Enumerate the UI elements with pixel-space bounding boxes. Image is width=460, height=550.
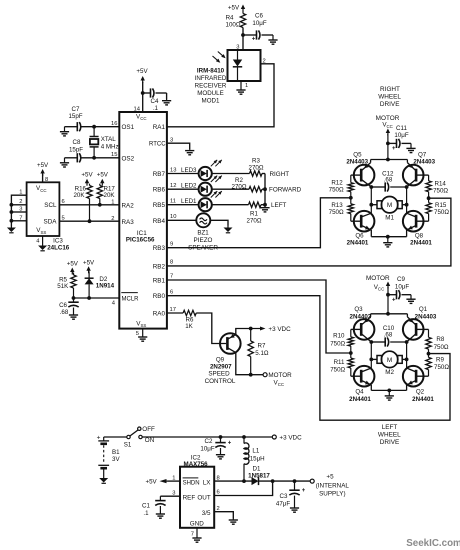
svg-text:+: +	[252, 37, 256, 43]
svg-text:3: 3	[19, 207, 22, 213]
transistor Q9 2N2907	[220, 333, 241, 354]
svg-text:Q8: Q8	[415, 233, 424, 240]
svg-text:+5V: +5V	[146, 479, 158, 486]
svg-text:+5V: +5V	[83, 259, 95, 266]
wire OUT riser	[214, 481, 272, 495]
eeprom IC3 box	[27, 182, 60, 236]
svg-text:LED1: LED1	[181, 198, 197, 205]
transistor Q5 2N4403	[354, 160, 375, 188]
svg-text:2: 2	[217, 506, 220, 512]
svg-text:2N4401: 2N4401	[412, 396, 434, 403]
wire SCL to RA2	[59, 204, 119, 206]
text MOTOR VCC (right)	[376, 115, 400, 129]
svg-text:OUT: OUT	[197, 494, 210, 501]
text Q8	[410, 233, 432, 247]
crystal XTAL 4MHz	[90, 127, 119, 158]
ground (IC2 GND)	[192, 537, 201, 543]
svg-text:Q4: Q4	[355, 389, 364, 396]
power +5V (R16)	[81, 172, 93, 186]
resistor R4	[226, 14, 246, 29]
svg-text:LED3: LED3	[181, 167, 197, 174]
label IC3 pin 4 and ground	[36, 236, 42, 245]
node OS2/XTAL	[92, 156, 96, 160]
svg-text:RIGHT: RIGHT	[270, 171, 290, 178]
power arrow motor vcc left	[386, 282, 390, 314]
ground (IC1 VSS)	[138, 336, 147, 342]
wire Q1 base rail	[416, 329, 428, 337]
capacitor C11 10uF	[388, 125, 411, 152]
svg-text:Q3: Q3	[354, 306, 363, 313]
svg-text:3/5: 3/5	[202, 510, 211, 517]
node R17/SCL	[98, 203, 102, 207]
svg-text:3: 3	[170, 138, 173, 144]
svg-text:C6: C6	[59, 302, 67, 309]
svg-text:RB5: RB5	[153, 202, 166, 209]
resistor R5 51K	[57, 273, 76, 299]
ground (C8)	[60, 158, 69, 167]
svg-text:R12: R12	[331, 180, 343, 187]
text BZ1 PIEZO SPEAKER	[188, 230, 218, 252]
svg-text:1: 1	[245, 83, 248, 89]
svg-text:RIGHT: RIGHT	[380, 86, 400, 93]
ground (RTCC)	[185, 150, 194, 155]
resistor R9 750	[426, 357, 450, 377]
svg-text:270Ω: 270Ω	[249, 165, 264, 172]
wire Q8 base	[416, 220, 429, 222]
node FORWARD junction	[263, 187, 267, 191]
wire Q9 emitter to +3VDC rail	[236, 329, 251, 335]
svg-text:M2: M2	[385, 369, 394, 376]
svg-text:.1: .1	[143, 510, 149, 517]
node C3 junction	[293, 479, 297, 483]
svg-text:10: 10	[170, 214, 176, 220]
resistor R17 20K	[97, 184, 115, 205]
node right bridge left input	[349, 196, 353, 200]
svg-text:2N4403: 2N4403	[346, 159, 368, 166]
wire left inner vertical (right bridge)	[370, 187, 372, 213]
svg-text:7: 7	[191, 532, 194, 538]
node M2 left	[369, 358, 373, 362]
node Q9 collector/R7	[249, 373, 253, 377]
svg-text:16: 16	[111, 121, 117, 127]
svg-text:.68: .68	[384, 176, 393, 183]
svg-text:750Ω: 750Ω	[434, 209, 449, 216]
terminal MOTOR VCC	[263, 372, 292, 387]
motor M1	[371, 197, 406, 222]
svg-text:Q7: Q7	[418, 152, 427, 159]
svg-text:C3: C3	[280, 493, 288, 500]
wire R6 to Q9 base	[196, 313, 226, 344]
wire Q7 base rail	[416, 175, 429, 181]
svg-text:+3 VDC: +3 VDC	[268, 326, 291, 333]
node left bridge left input	[349, 351, 353, 355]
svg-text:5.1Ω: 5.1Ω	[255, 350, 269, 357]
svg-text:R10: R10	[333, 333, 345, 340]
wire LED resistor common	[264, 174, 266, 205]
svg-text:2N4403: 2N4403	[413, 159, 435, 166]
svg-text:BZ1: BZ1	[197, 230, 209, 237]
svg-text:270Ω: 270Ω	[232, 184, 247, 191]
power arrow motor vcc right	[386, 129, 390, 160]
photodiode inside MOD1	[233, 50, 242, 81]
text IC3 inside labels	[36, 185, 57, 235]
svg-text:R7: R7	[258, 343, 266, 350]
svg-text:Q2: Q2	[416, 389, 425, 396]
svg-text:2N4401: 2N4401	[347, 240, 369, 247]
svg-text:750Ω: 750Ω	[330, 367, 345, 374]
capacitor C7	[65, 106, 83, 131]
svg-text:15pF: 15pF	[68, 113, 82, 120]
node M2 right	[405, 358, 409, 362]
wire RB2 to right bridge right input	[167, 198, 451, 266]
svg-text:M: M	[387, 202, 392, 209]
wire right bridge bottom rail	[371, 236, 406, 238]
wire RB1 to left bridge left input	[167, 280, 351, 353]
node VCC/C4 junction	[141, 91, 145, 95]
op IC1 PIC16C56 box	[119, 112, 167, 329]
wire RB3 to right bridge left input	[167, 198, 351, 248]
wire RB7 row	[167, 173, 265, 175]
svg-text:OS2: OS2	[122, 155, 135, 162]
svg-text:R13: R13	[331, 202, 343, 209]
svg-text:INFRARED: INFRARED	[195, 75, 227, 82]
svg-text:2: 2	[19, 199, 22, 205]
wire +5V to IC3 pin 8	[43, 174, 49, 183]
svg-text:OS1: OS1	[122, 124, 135, 131]
svg-text:R4: R4	[226, 15, 234, 22]
svg-text:1N5817: 1N5817	[248, 472, 270, 479]
svg-text:6: 6	[62, 199, 65, 205]
svg-text:15: 15	[111, 152, 117, 158]
svg-text:3: 3	[236, 45, 239, 51]
capacitor C6	[243, 13, 273, 43]
node C12 left	[369, 185, 373, 189]
node MCLR/R5	[72, 296, 76, 300]
label MOD1 pin 1	[241, 81, 248, 89]
node C11 junction	[386, 142, 390, 146]
capacitor C2 10uF	[200, 437, 231, 454]
text IC1 inside labels	[121, 114, 166, 328]
svg-text:RA0: RA0	[153, 310, 166, 317]
svg-text:51K: 51K	[57, 283, 69, 290]
svg-text:7: 7	[19, 215, 22, 221]
svg-text:1: 1	[19, 190, 22, 196]
text IC3 24LC16	[47, 238, 70, 252]
node top rail vcc left	[386, 312, 390, 316]
text Q9 labels	[205, 357, 236, 385]
node C2 junction	[219, 435, 223, 439]
svg-text:DRIVE: DRIVE	[380, 439, 400, 446]
transistor Q7 2N4403	[403, 160, 424, 188]
ground (C5)	[69, 314, 78, 320]
svg-text:RB4: RB4	[153, 218, 166, 225]
svg-text:+5V: +5V	[67, 261, 79, 268]
wire left bridge top rail	[371, 313, 408, 315]
svg-text:1K: 1K	[185, 323, 193, 330]
svg-text:RA1: RA1	[153, 124, 166, 131]
diode D1 1N5817	[248, 466, 270, 486]
wire D1 to +5 terminal	[259, 480, 311, 482]
svg-text:8: 8	[170, 260, 173, 266]
svg-text:REF: REF	[183, 494, 196, 501]
svg-text:10μF: 10μF	[252, 20, 266, 27]
svg-text:C1: C1	[142, 503, 150, 510]
wire RB5 row	[167, 204, 265, 206]
battery B1 3V	[97, 435, 121, 478]
svg-text:IC3: IC3	[53, 238, 63, 245]
capacitor C10 .68	[371, 325, 406, 347]
text Q2	[412, 389, 434, 403]
node right bridge right input	[427, 196, 431, 200]
node bottom rail ground left	[387, 389, 391, 393]
svg-text:C4: C4	[151, 98, 159, 105]
ground (right bridge)	[383, 237, 392, 247]
svg-text:8: 8	[217, 475, 220, 481]
wire RB6 row	[167, 188, 265, 190]
wire Q3 base rail	[351, 329, 361, 337]
svg-text:WHEEL: WHEEL	[378, 94, 401, 101]
wire left inner vertical (left bridge)	[370, 342, 372, 368]
svg-text:17: 17	[170, 307, 176, 313]
ground (IC3 bus)	[7, 227, 16, 233]
node R16/SDA	[88, 219, 92, 223]
svg-text:10μF: 10μF	[200, 445, 214, 452]
resistor R14 750	[426, 180, 449, 202]
wire 3/5 to ground	[214, 512, 233, 519]
text IRM-8410 module labels	[195, 68, 227, 105]
svg-text:MOTOR: MOTOR	[376, 115, 400, 122]
terminal +5 internal supply	[310, 473, 349, 497]
svg-text:SUPPLY): SUPPLY)	[319, 491, 345, 498]
svg-text:R3: R3	[252, 157, 260, 164]
text LEFT WHEEL DRIVE	[378, 424, 401, 446]
svg-text:+: +	[302, 488, 306, 494]
text IC2 MAX756	[184, 455, 209, 469]
capacitor C4	[143, 88, 167, 112]
text Q6	[347, 233, 369, 247]
svg-text:2N2907: 2N2907	[210, 363, 232, 370]
svg-text:PIC16C56: PIC16C56	[126, 237, 155, 244]
svg-text:+5V: +5V	[37, 162, 49, 169]
capacitor C12 .68	[371, 170, 406, 191]
svg-text:C8: C8	[73, 139, 81, 146]
svg-text:L1: L1	[252, 447, 259, 454]
text Q4	[349, 389, 371, 403]
svg-text:.68: .68	[384, 331, 393, 338]
piezo speaker BZ1	[196, 213, 210, 227]
wire left bridge bottom rail	[371, 389, 406, 391]
wire RTCC to ground	[167, 143, 190, 150]
ground (battery)	[99, 478, 108, 484]
svg-text:2N4401: 2N4401	[349, 396, 371, 403]
svg-text:+: +	[228, 441, 232, 447]
svg-text:Q6: Q6	[355, 233, 364, 240]
power +5V (R5)	[67, 261, 79, 275]
ground (C3)	[290, 507, 299, 513]
svg-text:20K: 20K	[73, 192, 85, 199]
svg-text:+5V: +5V	[136, 68, 148, 75]
resistor R7 5.1	[248, 329, 269, 375]
inductor L1 15uH	[244, 437, 265, 481]
transistor Q1 2N4403	[403, 314, 424, 342]
LED LED3	[199, 160, 222, 180]
svg-text:RTCC: RTCC	[149, 142, 166, 148]
svg-text:3: 3	[172, 490, 175, 496]
node OS1/XTAL	[92, 125, 96, 129]
ground (LED common)	[260, 205, 269, 212]
transistor Q8 2N4401	[403, 211, 424, 237]
text IC2 inside labels	[183, 478, 212, 528]
svg-text:SCL: SCL	[44, 202, 57, 209]
resistor R6 1K	[183, 310, 196, 330]
resistor R2 270	[232, 177, 262, 192]
svg-text:DRIVE: DRIVE	[380, 101, 400, 108]
ground (MOD1 pin1)	[236, 89, 245, 95]
svg-text:10μF: 10μF	[394, 132, 408, 139]
svg-text:+5: +5	[326, 473, 334, 480]
svg-text:B1: B1	[112, 449, 120, 456]
node M1 left	[369, 203, 373, 207]
svg-text:15μH: 15μH	[250, 455, 265, 462]
node L1/LX	[242, 479, 246, 483]
ground (left bridge)	[385, 390, 394, 400]
svg-text:RB6: RB6	[153, 187, 166, 194]
regulator IC2 box	[180, 467, 214, 528]
wire right inner vertical (left bridge)	[406, 342, 408, 368]
svg-text:RA3: RA3	[122, 219, 135, 226]
ground (BZ1)	[224, 226, 233, 233]
svg-text:RECEIVER: RECEIVER	[195, 83, 227, 90]
svg-text:R9: R9	[436, 357, 444, 364]
wire right bridge top rail	[371, 159, 408, 161]
wire Q9 collector to MOTOR VCC	[236, 353, 251, 375]
capacitor C1 .1	[142, 496, 166, 517]
wire +5V to IC1 pin 14	[142, 82, 144, 112]
node bottom rail ground	[386, 235, 390, 239]
capacitor C3 47uF	[276, 481, 306, 507]
text Q7	[413, 152, 435, 166]
node Q9 emitter/R7	[249, 327, 253, 331]
resistor R13 750	[329, 202, 354, 221]
svg-text:9: 9	[170, 242, 173, 248]
capacitor C9 10uF	[388, 276, 411, 304]
motor M2	[371, 351, 406, 376]
svg-text:5: 5	[136, 331, 139, 337]
ground (C9)	[406, 295, 415, 304]
power +5V (R17)	[97, 172, 109, 186]
resistor R1 270	[247, 202, 262, 224]
svg-text:47μF: 47μF	[276, 500, 290, 507]
svg-text:750Ω: 750Ω	[329, 209, 344, 216]
svg-text:C6: C6	[255, 13, 263, 20]
node left bridge right input	[427, 352, 431, 356]
svg-text:R15: R15	[435, 202, 447, 209]
svg-text:+5V: +5V	[97, 172, 109, 179]
svg-text:750Ω: 750Ω	[330, 341, 345, 348]
svg-text:MCLR: MCLR	[122, 296, 140, 302]
text RIGHT WHEEL DRIVE	[378, 86, 401, 108]
svg-text:15pF: 15pF	[69, 147, 83, 154]
svg-text:2N4403: 2N4403	[350, 313, 372, 320]
svg-text:6: 6	[217, 490, 220, 496]
ground (IC3 VSS)	[38, 245, 47, 251]
svg-text:ON: ON	[145, 437, 155, 444]
svg-text:IRM-8410: IRM-8410	[197, 68, 225, 75]
resistor R12 750	[329, 180, 354, 204]
wire OS2	[81, 157, 119, 159]
resistor R16 20K	[73, 184, 92, 222]
svg-text:.68: .68	[60, 309, 69, 316]
wire GND pin 7	[191, 528, 197, 538]
svg-text:13: 13	[170, 168, 176, 174]
svg-text:750Ω: 750Ω	[434, 364, 449, 371]
svg-text:MOD1: MOD1	[202, 98, 220, 105]
transistor Q4 2N4401	[354, 366, 375, 390]
resistor R15 750	[426, 202, 449, 221]
svg-text:1: 1	[111, 200, 114, 206]
wire REF to C1	[160, 495, 180, 497]
svg-text:CONTROL: CONTROL	[205, 378, 236, 385]
ground (3/5)	[229, 519, 238, 525]
svg-text:RB0: RB0	[153, 293, 166, 300]
node M1 right	[405, 203, 409, 207]
svg-text:C7: C7	[72, 106, 80, 113]
svg-text:10μF: 10μF	[395, 284, 409, 291]
wire +3VDC rail	[142, 436, 272, 438]
svg-text:+5V: +5V	[228, 5, 240, 12]
transistor Q6 2N4401	[354, 211, 375, 237]
svg-text:+: +	[392, 146, 396, 152]
transistor Q2 2N4401	[403, 366, 424, 390]
svg-text:7: 7	[170, 274, 173, 280]
power +5V (D2)	[83, 259, 95, 273]
svg-text:100Ω: 100Ω	[226, 22, 241, 29]
resistor R11 750	[330, 358, 353, 376]
svg-text:LX: LX	[203, 479, 212, 486]
svg-text:+3 VDC: +3 VDC	[279, 435, 302, 442]
svg-text:RB2: RB2	[153, 263, 166, 270]
wire LX to L1/D1	[214, 480, 251, 482]
wire Q5 base rail	[351, 175, 361, 183]
ground (C7)	[60, 127, 69, 136]
svg-text:2N4401: 2N4401	[410, 240, 432, 247]
svg-text:(INTERNAL: (INTERNAL	[316, 483, 350, 490]
resistor R3 270	[249, 157, 264, 176]
svg-text:PIEZO: PIEZO	[194, 237, 213, 244]
svg-text:2: 2	[111, 216, 114, 222]
svg-text:RB1: RB1	[153, 277, 166, 284]
node OUT/D1	[271, 479, 275, 483]
wire RA0 to R6	[167, 312, 183, 314]
node top rail vcc	[386, 158, 390, 162]
svg-text:Q5: Q5	[353, 152, 362, 159]
svg-text:750Ω: 750Ω	[433, 187, 448, 194]
power +5V (R4 feed)	[228, 5, 245, 14]
svg-text:RB7: RB7	[153, 171, 166, 178]
svg-text:M: M	[387, 357, 392, 364]
ground (C1)	[156, 513, 165, 519]
svg-text:6: 6	[170, 290, 173, 296]
svg-text:WHEEL: WHEEL	[378, 432, 401, 439]
svg-text:750Ω: 750Ω	[434, 344, 449, 351]
ground (C4)	[162, 100, 171, 105]
svg-text:20K: 20K	[104, 192, 116, 199]
transistor Q3 2N4403	[354, 314, 375, 342]
power +5V (IC3)	[37, 162, 49, 176]
wire Q6 base	[351, 220, 361, 222]
wire R4 to module pin 3	[242, 28, 244, 51]
svg-text:S1: S1	[124, 442, 132, 449]
